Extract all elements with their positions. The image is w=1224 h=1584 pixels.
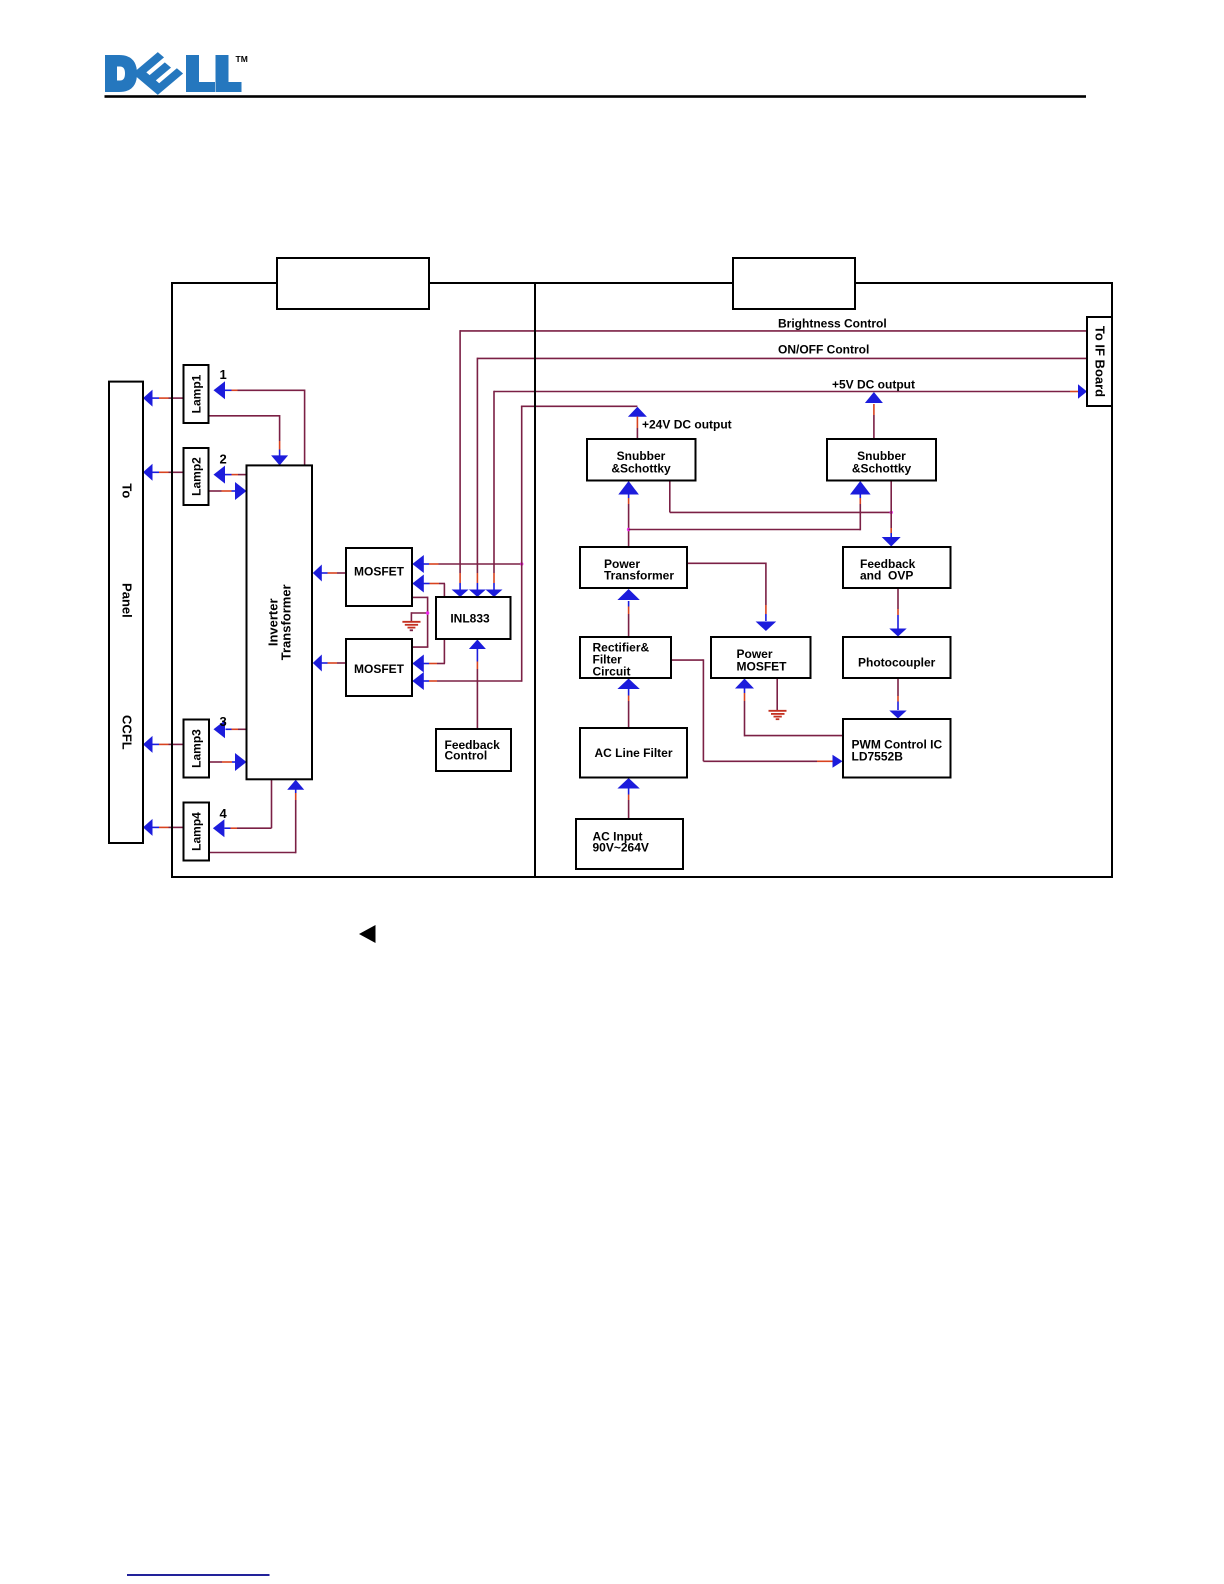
node junction ground tap (411, 612, 427, 614)
wire Lamp1 to panel connector (169, 397, 184, 399)
wire lamp1 pin1 from inverter transformer (238, 389, 305, 391)
wire power transformer to power mosfet (687, 562, 766, 564)
node junction transformer/snubber2 branch (627, 528, 630, 531)
wire lamp2 return to transformer (209, 490, 222, 492)
feedback and OVP block (843, 547, 951, 588)
wire ac line filter to rectifier (628, 701, 630, 728)
footer link rule (127, 1574, 270, 1576)
svg-text:TM: TM (236, 54, 248, 64)
transistor MOSFET upper (346, 548, 412, 606)
wire rectifier to power transformer (628, 614, 630, 637)
wire mosfet1-mosfet2 link (412, 596, 428, 598)
rectifier and filter circuit block (580, 637, 671, 678)
svg-text:Photocoupler: Photocoupler (858, 656, 936, 670)
wire mosfet1 drive to transformer (337, 572, 346, 574)
svg-text:&Schottky: &Schottky (611, 462, 671, 476)
wire on/off control line (477, 357, 1087, 359)
svg-text:To IF Board: To IF Board (1092, 326, 1107, 397)
header rule (105, 95, 1087, 98)
power board outline (535, 283, 1112, 877)
connector To IF Board (1087, 317, 1112, 406)
svg-text:Brightness Control: Brightness Control (778, 317, 887, 331)
svg-text:Control: Control (445, 749, 488, 763)
wire lamp4 return to transformer (209, 852, 296, 854)
transistor MOSFET lower (346, 639, 412, 696)
wire feedback control to INL833 (476, 669, 478, 729)
transistor Power MOSFET (711, 637, 811, 678)
lamp connector Lamp1 (184, 365, 209, 423)
svg-text:CCFL: CCFL (119, 715, 134, 750)
wire Lamp3 to panel connector (169, 743, 184, 745)
wire feedback/ovp to photocoupler (897, 588, 899, 609)
optocoupler Photocoupler (843, 637, 951, 678)
svg-text:ON/OFF Control: ON/OFF Control (778, 343, 869, 357)
connector To Panel CCFL (109, 382, 143, 843)
node junction mosfet1/+24V riser (520, 562, 523, 565)
AC line filter block (580, 728, 687, 778)
controller IC INL833 (436, 597, 511, 639)
wire photocoupler to pwm (897, 678, 899, 696)
svg-text:MOSFET: MOSFET (354, 565, 405, 579)
transformer T1 Inverter Transformer (247, 465, 313, 779)
wire snubber2 to +5V rail (873, 415, 875, 439)
inverter board outline (172, 283, 535, 877)
lamp connector Lamp2 (184, 448, 209, 505)
lamp connector Lamp4 (184, 803, 210, 861)
wire +24V riser to mosfet2 (437, 680, 522, 682)
svg-text:+5V DC output: +5V DC output (832, 378, 915, 392)
svg-text:90V~264V: 90V~264V (593, 841, 649, 855)
wire pwm to power mosfet (745, 735, 844, 737)
lamp connector Lamp3 (184, 720, 210, 778)
svg-text:&Schottky: &Schottky (852, 462, 912, 476)
svg-text:INL833: INL833 (450, 612, 490, 626)
svg-text:4: 4 (220, 806, 228, 821)
wire +5V DC output line (494, 391, 1070, 393)
svg-text:Lamp1: Lamp1 (190, 374, 204, 413)
wire brightness control line (460, 330, 1087, 332)
svg-text:Circuit: Circuit (593, 665, 631, 679)
power board title box (733, 258, 855, 309)
wire lamp2 pin from transformer (238, 474, 247, 476)
PWM control IC LD7552B (843, 719, 951, 778)
svg-text:Panel: Panel (119, 583, 134, 618)
wire lamp1 return to transformer (209, 415, 280, 417)
wire +24V DC output line (521, 405, 638, 407)
svg-text:LD7552B: LD7552B (852, 750, 904, 764)
ground (power mosfet) (769, 710, 787, 712)
svg-text:+24V DC output: +24V DC output (642, 418, 732, 432)
svg-text:Transformer: Transformer (604, 569, 674, 583)
wire lamp3 pin from transformer (238, 728, 247, 730)
snubber/schottky block 1 (587, 439, 696, 481)
wire Lamp2 to panel connector (169, 471, 184, 473)
AC input block (576, 819, 683, 869)
svg-text:3: 3 (220, 714, 227, 729)
inverter board title box (277, 258, 429, 309)
wire lamp3 return to transformer (209, 761, 222, 763)
wire mosfet2 drive to transformer (337, 662, 346, 664)
wire INL833 to mosfet2 gate (443, 639, 445, 664)
wire INL833 to mosfet1 gate (443, 584, 445, 598)
Dell logo (105, 52, 248, 95)
wire +24V rail junction to mosfet1 (439, 563, 522, 565)
wire snubber1 to feedback/ovp link (669, 481, 671, 513)
svg-text:MOSFET: MOSFET (737, 660, 788, 674)
wire snubber1 input from power transformer (618, 481, 639, 495)
wire transformer to lamp4 pin (271, 779, 273, 828)
svg-text:Lamp2: Lamp2 (190, 457, 204, 496)
snubber/schottky block 2 (827, 439, 936, 481)
wire +24V output from snubber1 (628, 407, 647, 417)
wire rectifier to pwm (671, 659, 703, 661)
transformer Power Transformer (580, 547, 687, 588)
svg-text:and OVP: and OVP (860, 569, 913, 583)
wire power mosfet ground stem (776, 678, 778, 710)
svg-text:2: 2 (220, 452, 227, 467)
svg-text:Lamp4: Lamp4 (190, 812, 204, 851)
wire branch to snubber2 (629, 529, 861, 531)
svg-text:MOSFET: MOSFET (354, 662, 405, 676)
wire Lamp4 to panel connector (169, 826, 184, 828)
wire ac input to ac line filter (628, 800, 630, 819)
svg-text:1: 1 (220, 367, 227, 382)
wire snubber2 to feedback and OVP (890, 481, 892, 529)
feedback control block (436, 729, 511, 771)
node junction snubber2/feedback (890, 511, 893, 514)
svg-text:AC Line Filter: AC Line Filter (594, 746, 672, 760)
ground (inverter) (402, 621, 420, 623)
svg-text:To: To (119, 483, 134, 498)
back navigation triangle (359, 925, 376, 943)
svg-text:Lamp3: Lamp3 (190, 729, 204, 768)
